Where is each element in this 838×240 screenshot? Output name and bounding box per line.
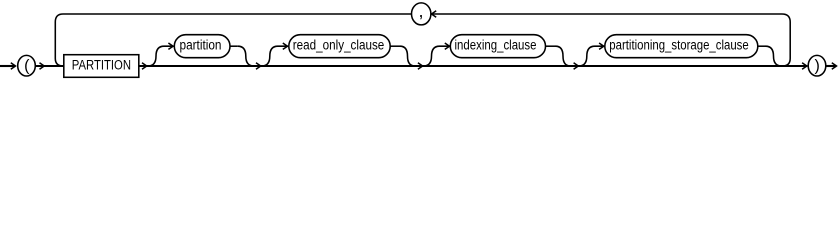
branch up to read_only_clause <box>262 46 288 66</box>
loop comma terminal <box>412 3 431 25</box>
arrow into indexing_clause <box>445 43 450 49</box>
arrow on main line before ) terminal <box>802 63 807 69</box>
arrow into ( terminal <box>11 63 16 69</box>
nonterminal partition <box>174 35 230 58</box>
arrow on main line before partitioning_storage_clause branch <box>574 63 579 69</box>
merge down from read_only_clause <box>400 46 415 66</box>
arrow on main line before read_only_clause branch <box>256 63 261 69</box>
svg-text:): ) <box>815 57 820 74</box>
arrow after ( <box>40 63 45 69</box>
wire from ( to PARTITION box <box>35 65 64 67</box>
wire main line start <box>0 65 16 67</box>
terminal ) <box>808 55 826 76</box>
nonterminal partitioning_storage_clause <box>605 35 758 58</box>
svg-text:partition: partition <box>180 38 222 53</box>
nonterminal read_only_clause <box>289 35 390 58</box>
keyword box PARTITION <box>64 55 139 78</box>
arrow after PARTITION <box>142 63 147 69</box>
svg-text:(: ( <box>24 57 30 74</box>
terminal ( <box>18 55 36 76</box>
svg-text:,: , <box>418 1 423 21</box>
branch up to partitioning_storage_clause <box>579 46 604 66</box>
wire end <box>826 65 837 67</box>
loop return left side: corners and vertical <box>55 14 63 66</box>
loop top line left segment <box>63 13 412 15</box>
loop top line right segment <box>431 13 782 15</box>
merge down from partition <box>238 46 254 66</box>
svg-text:partitioning_storage_clause: partitioning_storage_clause <box>609 38 748 53</box>
wire main bypass line <box>139 65 807 67</box>
nonterminal indexing_clause <box>450 35 545 58</box>
svg-text:PARTITION: PARTITION <box>72 58 131 73</box>
branch up to indexing_clause <box>424 46 450 66</box>
arrow into read_only_clause <box>283 43 288 49</box>
arrow into comma (pointing left) <box>432 11 437 17</box>
arrow on main line before indexing_clause branch <box>418 63 423 69</box>
wire exit partitioning_storage_clause <box>758 45 766 47</box>
arrow into partitioning_storage_clause <box>599 43 604 49</box>
wire exit partition <box>230 45 238 47</box>
wire exit indexing_clause <box>546 45 556 47</box>
svg-text:indexing_clause: indexing_clause <box>455 38 537 53</box>
merge down from partitioning_storage_clause <box>766 46 782 66</box>
branch up to partition <box>148 46 174 66</box>
wire exit read_only_clause <box>390 45 400 47</box>
arrow end <box>832 63 837 69</box>
merge down from indexing_clause <box>556 46 571 66</box>
svg-text:read_only_clause: read_only_clause <box>293 38 385 53</box>
arrow into partition <box>168 43 173 49</box>
loop return right side: corners and vertical <box>782 14 790 66</box>
